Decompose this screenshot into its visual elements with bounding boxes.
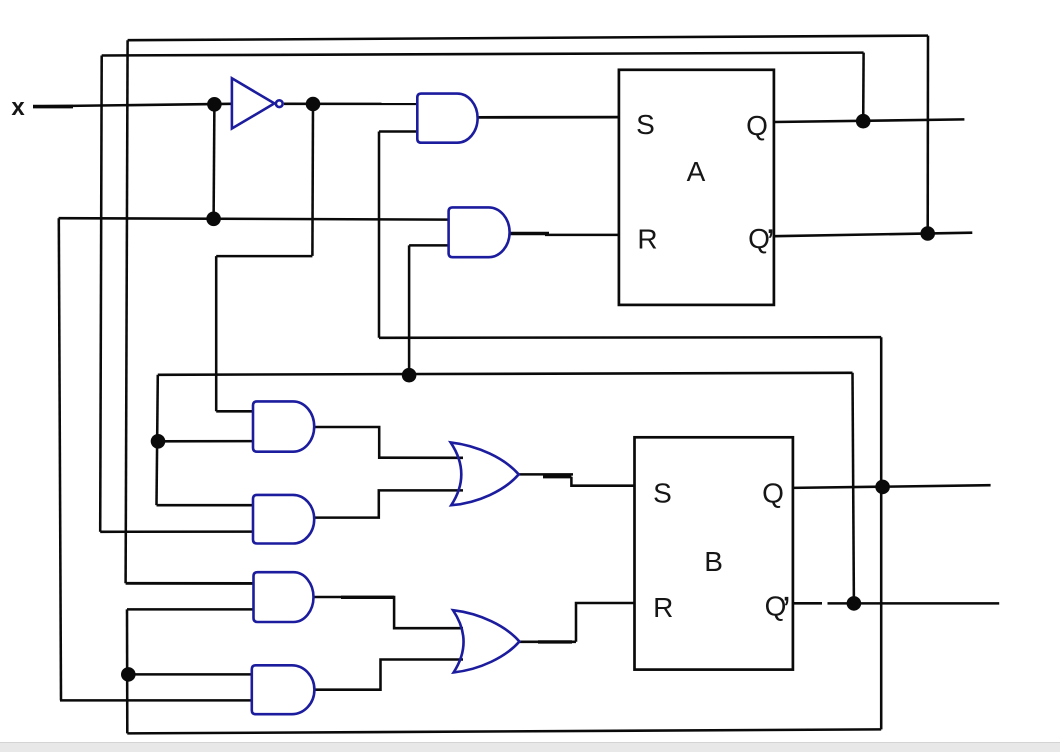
flip-flop B box (635, 437, 793, 669)
wire OR G7 output (519, 473, 573, 476)
wire vertical x=854 (853, 373, 854, 604)
wire A Q output line (774, 119, 964, 122)
junction dot on B Q line (875, 480, 890, 495)
wire B Qbar output segment 2 (828, 602, 1000, 605)
junction dot at x=128 (121, 667, 136, 682)
wire vertical x=127 lower (126, 609, 129, 733)
wire y=338 horizontal (379, 336, 881, 339)
wire B Qbar output segment 1 (793, 602, 822, 605)
junction dot on A Qbar line (920, 226, 935, 241)
wire AND G3 output (314, 427, 463, 458)
wire AND G6 bottom input (60, 699, 253, 702)
wire A Qbar output line (774, 233, 972, 237)
wire vertical x=863 (862, 53, 865, 122)
svg-text:’: ’ (782, 590, 790, 632)
svg-text:Q: Q (762, 478, 784, 509)
wire B Q output line (793, 485, 991, 488)
flip-flop A box (619, 70, 774, 305)
wire vertical x=928 (926, 36, 929, 234)
wire AND G4 output (314, 490, 463, 517)
inverter NOT gate (232, 78, 275, 128)
wire jog into B S (571, 477, 634, 486)
wire AND G1 output to A S (477, 116, 619, 119)
junction dot on y=375 line (402, 368, 417, 383)
wire vertical x=216 (215, 256, 218, 411)
wire AND G6 output (315, 660, 464, 690)
wire AND G2 output to A R (545, 234, 619, 237)
svg-text:R: R (653, 592, 673, 623)
junction dot at x=158 (151, 434, 166, 449)
junction dot on A Q line (856, 114, 871, 129)
wire AND G3 top input (216, 410, 253, 413)
wire top horizontal A Qbar feedback (128, 36, 928, 41)
junction dot on y=219 line (206, 212, 221, 227)
wire AND G5 bottom input (127, 608, 254, 611)
AND gate G2 (449, 207, 510, 257)
wire AND G1 bottom input (379, 130, 418, 133)
svg-text:S: S (636, 109, 655, 140)
wire vertical x=101 (100, 56, 102, 532)
svg-text:x: x (11, 94, 25, 121)
svg-text:S: S (653, 477, 672, 508)
wire OR G8 output thick overlap (538, 640, 572, 643)
OR gate G8 (453, 610, 519, 672)
AND gate G3 (253, 401, 314, 451)
wire jog into B R (576, 603, 635, 642)
junction dot on B Qbar line (847, 596, 862, 611)
wire x input (33, 104, 232, 107)
wire AND G5 output thick overlap (341, 596, 394, 599)
svg-text:A: A (687, 156, 706, 187)
svg-text:R: R (637, 223, 657, 254)
wire AND G2 bottom input (409, 244, 449, 247)
wire vertical x=881 (880, 337, 883, 729)
junction dot at NOT input (207, 97, 222, 112)
wire y=55 horizontal A Q feedback (102, 53, 864, 56)
wire AND G4 bottom input (100, 530, 253, 533)
wire NOT output vertical x=313 (311, 104, 314, 256)
AND gate G5 (254, 572, 314, 622)
wire AND G5 top input (126, 582, 254, 585)
bottom gray bar (0, 742, 1060, 752)
wire vertical x=379 (378, 132, 381, 338)
wire vertical x=409 (408, 245, 411, 375)
wire AND G6 top input (128, 673, 252, 676)
wire y=256 horizontal (216, 255, 312, 258)
wire bottom horizontal B Q feedback (127, 729, 881, 733)
AND gate G4 (253, 495, 314, 544)
OR gate G7 (451, 442, 519, 505)
wire OR G7 output thick overlap (543, 475, 571, 478)
wire vertical x=158 (157, 375, 158, 505)
wire AND G5 output (314, 597, 464, 628)
wire AND G3 bottom input (158, 440, 254, 443)
wire left vertical x=59 (59, 218, 61, 700)
svg-text:’: ’ (766, 223, 774, 265)
wire y=375 horizontal B Qbar feedback (158, 373, 853, 375)
wire x vertical branch x=214 (212, 104, 215, 219)
wire y=219 horizontal to AND G2 top input (59, 218, 449, 219)
wire AND G4 top input (157, 504, 254, 507)
wire NOT output to AND G1 top input (284, 103, 418, 106)
AND gate G6 (252, 665, 315, 714)
wire AND G2 output thick (509, 232, 549, 236)
junction dot at NOT output (306, 97, 321, 112)
wire vertical x=127 upper (126, 40, 128, 583)
AND gate G1 (417, 94, 477, 143)
svg-text:B: B (704, 546, 723, 577)
wire x input thick overlap (33, 105, 73, 109)
inverter bubble (276, 100, 283, 107)
wire OR G8 output (519, 641, 576, 644)
svg-text:Q: Q (746, 110, 768, 141)
